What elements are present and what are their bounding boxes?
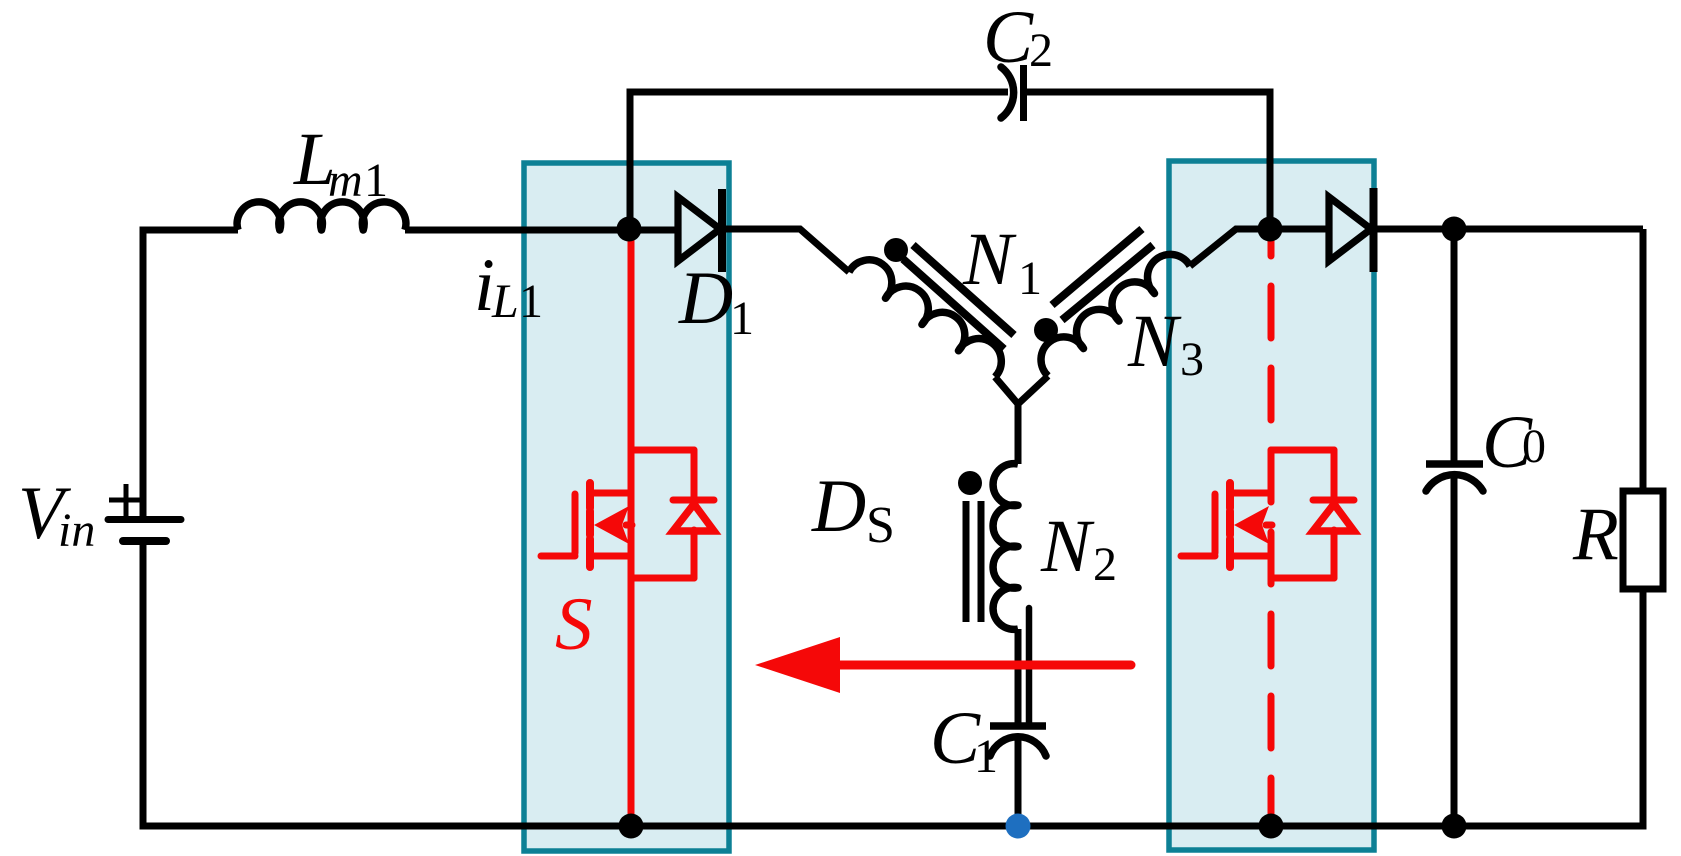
wire: right rail down to resistor: [1640, 229, 1647, 492]
MOSFET S arrow (left): [594, 506, 629, 544]
wire: N1 end to Y center: [995, 377, 1018, 404]
svg-text:0: 0: [1522, 420, 1546, 473]
red current path line (solid, through S): [628, 232, 635, 826]
core bar N1 b: [913, 245, 1014, 335]
wire: C0 branch upper: [1451, 229, 1458, 464]
svg-text:N: N: [1040, 505, 1095, 588]
svg-text:C: C: [983, 0, 1034, 79]
wire: Lm1 to D1 anode: [405, 227, 678, 234]
diode D2 triangle: [1329, 197, 1371, 261]
polarity dot N3: [1034, 318, 1058, 342]
node: C0 bottom junction: [1442, 814, 1467, 839]
wire: Y center to N2 top: [1015, 404, 1022, 464]
svg-text:2: 2: [1029, 24, 1053, 77]
capacitor C0 curved plate: [1426, 475, 1483, 491]
battery Vin short plate: [123, 537, 166, 545]
svg-text:N: N: [962, 218, 1017, 301]
node: right cell bottom junction: [1259, 814, 1284, 839]
diode D1 triangle: [678, 197, 720, 261]
svg-text:in: in: [58, 504, 95, 557]
node: D1 anode junction: [617, 217, 642, 242]
highlight box left (switch cell S): [524, 163, 729, 851]
capacitor C2 straight plate: [1020, 65, 1027, 121]
svg-text:S: S: [866, 497, 895, 554]
svg-text:1: 1: [519, 275, 543, 328]
wire: battery to bottom rail: [140, 545, 147, 826]
battery Vin long plate: [108, 516, 181, 523]
core bar N3 a: [1062, 245, 1153, 320]
polarity dot N2: [958, 471, 982, 495]
svg-text:1: 1: [364, 154, 388, 207]
svg-text:1: 1: [974, 730, 998, 783]
core bar N2 b: [978, 501, 985, 622]
capacitor C1 extra plate line: [1026, 608, 1033, 723]
wire: N3 end to D2 anode: [1190, 229, 1329, 266]
svg-text:N: N: [1127, 300, 1182, 383]
capacitor C1 straight plate: [990, 722, 1046, 730]
winding N2: [993, 464, 1018, 630]
red dashed path line (right cell): [1268, 240, 1275, 826]
resistor R body: [1623, 491, 1663, 589]
svg-text:1: 1: [730, 292, 754, 345]
wire: C0 branch lower: [1451, 475, 1458, 826]
wire: C1 to bottom rail: [1015, 738, 1022, 826]
node: C0 top junction: [1442, 217, 1467, 242]
node: D2 anode junction: [1258, 217, 1283, 242]
svg-text:m: m: [328, 154, 363, 207]
core bar N1 a: [903, 259, 1004, 349]
wire: resistor to bottom rail: [1640, 588, 1647, 826]
wire: left rail top from Vin to Lm1: [143, 230, 238, 518]
svg-text:D: D: [811, 465, 866, 548]
node: C1 bottom junction (blue): [1006, 814, 1031, 839]
diode D2 cathode bar: [1370, 188, 1378, 272]
inductor Lm1: [237, 202, 406, 230]
MOSFET S (left), red: [541, 450, 714, 578]
MOSFET arrow (right): [1234, 506, 1269, 544]
red current flow arrow: [840, 661, 1131, 670]
winding N1: [849, 260, 1001, 377]
wire: C2 top run right and riser to D2 node: [1024, 92, 1271, 230]
node: S source bottom junction: [619, 814, 644, 839]
capacitor C2 curved plate: [1001, 67, 1014, 118]
diode D1 cathode bar: [718, 189, 726, 272]
wire: N2 bottom to C1: [1015, 629, 1022, 723]
core bar N3 b: [1052, 229, 1142, 305]
winding N3: [1041, 254, 1190, 376]
svg-text:D: D: [678, 257, 733, 340]
wire: D1 cathode to winding N1: [722, 229, 849, 272]
wire: C2 branch left riser and top run: [630, 92, 1008, 230]
svg-text:1: 1: [1018, 252, 1042, 305]
wire: bottom rail: [140, 823, 1647, 830]
svg-text:L: L: [491, 275, 519, 328]
battery Vin plus sign: [109, 484, 141, 516]
highlight box right (switch cell): [1169, 161, 1374, 850]
svg-text:R: R: [1572, 493, 1619, 576]
svg-text:3: 3: [1180, 333, 1204, 386]
wire: D2 cathode to right rail: [1373, 226, 1643, 233]
svg-text:2: 2: [1093, 538, 1117, 591]
capacitor C1 curved plate: [990, 737, 1046, 756]
polarity dot N1: [884, 238, 908, 262]
wire: Y center to N3 start: [1018, 376, 1048, 404]
core bar N2 a: [963, 501, 970, 622]
svg-text:S: S: [555, 583, 593, 666]
capacitor C0 straight plate: [1426, 460, 1483, 468]
MOSFET (right cell), red: [1181, 450, 1354, 578]
